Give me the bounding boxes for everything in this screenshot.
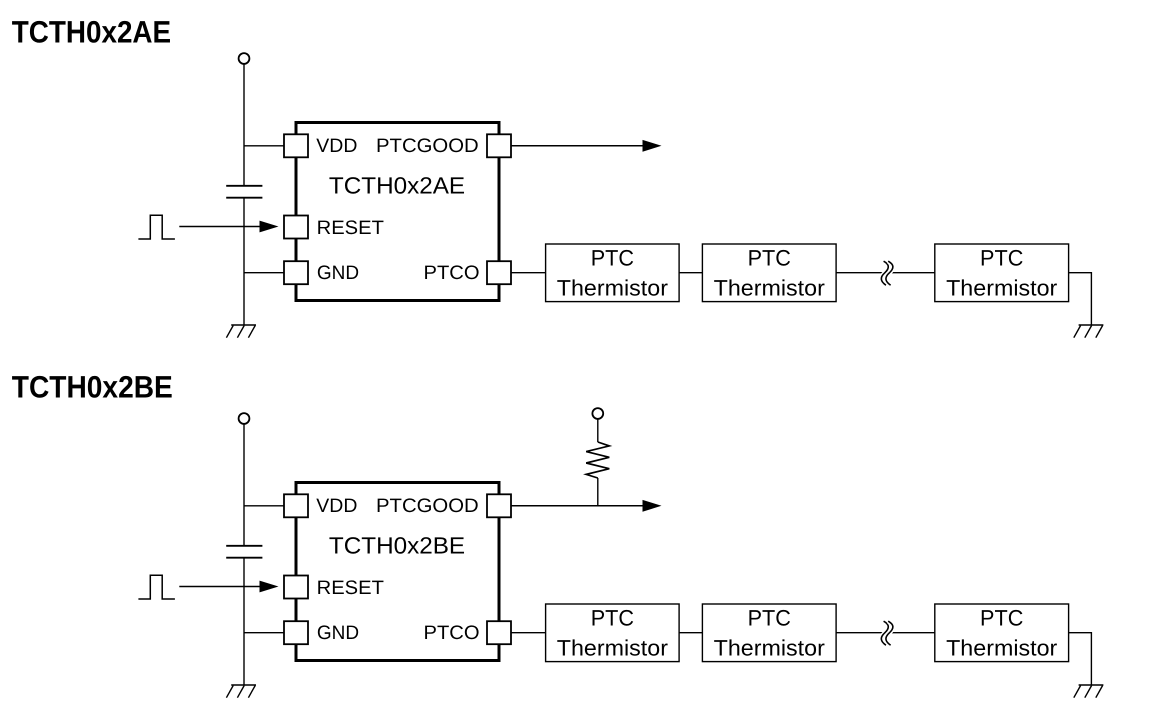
svg-text:PTC: PTC: [980, 606, 1023, 631]
arrowhead PTCGOOD output: [643, 140, 662, 152]
svg-text:Thermistor: Thermistor: [557, 276, 669, 301]
wire RT1 to RT2: [679, 272, 702, 274]
wire RT2 to RTn with break: [836, 272, 935, 274]
pin RESET (U2): [284, 576, 308, 599]
IC U2 TCTH0x2BE box: [296, 483, 499, 661]
svg-text:Thermistor: Thermistor: [946, 276, 1058, 301]
svg-text:RESET: RESET: [317, 217, 384, 239]
arrowhead RESET: [260, 221, 279, 233]
wire supply to capacitor: [243, 64, 245, 186]
break symbol (bottom chain): [881, 621, 893, 645]
wire RTn to ground: [1069, 273, 1092, 325]
wire RT1 to RT2: [679, 632, 702, 634]
ground (left, bottom circuit): [226, 685, 256, 698]
wire capacitor to ground: [243, 198, 245, 325]
wire PTCO to thermistor chain: [511, 632, 546, 634]
capacitor C2: [226, 546, 262, 558]
wire capacitor to ground: [243, 558, 245, 685]
wire RESET arrow: [179, 226, 262, 228]
ground (left, top circuit): [226, 325, 256, 338]
svg-text:PTCGOOD: PTCGOOD: [376, 495, 479, 517]
PTC thermistor RT2 (bottom circuit): [702, 604, 836, 662]
svg-text:RESET: RESET: [317, 577, 384, 599]
pulse symbol (RESET input, top circuit): [138, 215, 175, 239]
arrowhead PTCGOOD output: [643, 500, 662, 512]
wire PTCO to thermistor chain: [511, 272, 546, 274]
svg-text:PTCGOOD: PTCGOOD: [376, 135, 479, 157]
wire PTCGOOD output: [511, 505, 644, 507]
svg-text:GND: GND: [317, 262, 359, 284]
wire PTCGOOD output: [511, 145, 644, 147]
wire RTn to ground: [1069, 633, 1092, 685]
svg-text:PTC: PTC: [748, 606, 791, 631]
wire VDD branch: [244, 145, 285, 147]
svg-text:Thermistor: Thermistor: [714, 276, 826, 301]
PTC thermistor RT2 (top circuit): [702, 244, 836, 302]
wire supply to capacitor: [243, 424, 245, 546]
svg-text:VDD: VDD: [316, 495, 357, 517]
PTC thermistor RT1 (bottom circuit): [546, 604, 680, 662]
wire GND branch: [244, 272, 285, 274]
svg-text:Thermistor: Thermistor: [946, 636, 1058, 661]
pin VDD (U1): [284, 134, 308, 157]
supply terminal VDD (top circuit): [239, 53, 250, 64]
PTC thermistor RT1 (top circuit): [546, 244, 680, 302]
break symbol (top chain): [881, 261, 893, 285]
svg-text:TCTH0x2BE: TCTH0x2BE: [329, 533, 465, 559]
wire RT2 to RTn with break: [836, 632, 935, 634]
svg-text:GND: GND: [317, 622, 359, 644]
pulse symbol (RESET input, bottom circuit): [138, 575, 175, 599]
svg-text:PTC: PTC: [591, 606, 634, 631]
pin PTCGOOD (U1): [487, 134, 511, 157]
wire RESET arrow: [179, 586, 262, 588]
svg-text:PTC: PTC: [591, 246, 634, 271]
wire GND branch: [244, 632, 285, 634]
svg-text:VDD: VDD: [316, 135, 357, 157]
IC U1 TCTH0x2AE box: [296, 123, 499, 301]
wire VDD branch: [244, 505, 285, 507]
pin RESET (U1): [284, 216, 308, 239]
pin VDD (U2): [284, 494, 308, 517]
svg-text:PTC: PTC: [748, 246, 791, 271]
PTC thermistor RTn (bottom circuit): [935, 604, 1069, 662]
svg-text:Thermistor: Thermistor: [557, 636, 669, 661]
supply terminal pull-up (bottom circuit): [592, 408, 603, 419]
svg-text:PTCO: PTCO: [424, 262, 480, 284]
wire supply to resistor R1: [597, 419, 599, 442]
pin PTCO (U1): [487, 261, 511, 284]
pin GND (U2): [284, 621, 308, 644]
svg-text:PTC: PTC: [980, 246, 1023, 271]
pin GND (U1): [284, 261, 308, 284]
pin PTCO (U2): [487, 621, 511, 644]
PTC thermistor RTn (top circuit): [935, 244, 1069, 302]
ground (right, bottom circuit): [1074, 685, 1104, 698]
arrowhead RESET: [260, 581, 279, 593]
pin PTCGOOD (U2): [487, 494, 511, 517]
svg-text:TCTH0x2AE: TCTH0x2AE: [12, 15, 171, 50]
ground (right, top circuit): [1074, 325, 1104, 338]
svg-text:TCTH0x2AE: TCTH0x2AE: [329, 173, 465, 199]
svg-text:Thermistor: Thermistor: [714, 636, 826, 661]
svg-text:TCTH0x2BE: TCTH0x2BE: [12, 370, 173, 405]
wire resistor to PTCGOOD line: [597, 478, 599, 506]
resistor R1 (pull-up): [586, 442, 609, 478]
capacitor C1: [226, 186, 262, 198]
svg-text:PTCO: PTCO: [424, 622, 480, 644]
supply terminal VDD (bottom circuit): [239, 413, 250, 424]
